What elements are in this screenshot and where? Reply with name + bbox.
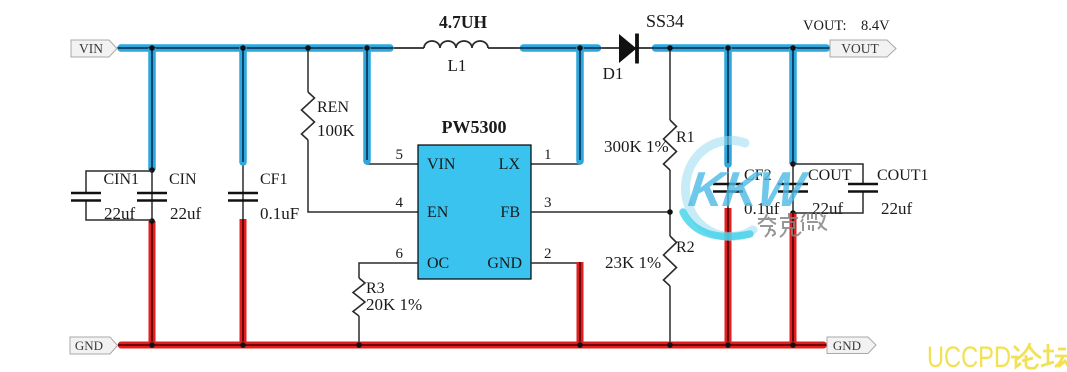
net flag VIN bbox=[71, 40, 117, 57]
resistor REN 100K bbox=[302, 92, 356, 140]
svg-text:FB: FB bbox=[500, 204, 520, 221]
svg-text:CIN1: CIN1 bbox=[104, 171, 140, 188]
pin 4 EN bbox=[396, 195, 449, 221]
wire FB pin to divider node bbox=[531, 211, 670, 213]
watermark KKW text bbox=[685, 162, 810, 217]
wire LX pin branch black core bbox=[531, 48, 580, 164]
svg-text:KKW: KKW bbox=[685, 162, 810, 217]
label VOUT voltage bbox=[803, 18, 890, 34]
svg-text:CF1: CF1 bbox=[260, 171, 288, 188]
wire top rail blue highlight segment inductor to diode bbox=[520, 44, 601, 52]
net flag GND left bbox=[70, 337, 118, 354]
svg-text:D1: D1 bbox=[603, 64, 624, 83]
svg-text:0.1uF: 0.1uF bbox=[260, 204, 299, 223]
svg-text:8.4V: 8.4V bbox=[861, 18, 890, 34]
node VIN rail at REN bbox=[305, 45, 311, 51]
node VIN rail at CIN bbox=[149, 45, 155, 51]
wire top rail blue highlight segment VIN flag to inductor bbox=[118, 44, 393, 52]
svg-text:COUT1: COUT1 bbox=[877, 167, 929, 184]
node VOUT rail at COUT bbox=[790, 45, 796, 51]
svg-text:LX: LX bbox=[499, 156, 521, 173]
wire VIN pin branch black core bbox=[367, 48, 418, 164]
wire CF1 branch blue highlight bbox=[239, 48, 247, 162]
diode D1 SS34 bbox=[603, 11, 684, 83]
pin 1 LX bbox=[499, 147, 552, 173]
node GND rail at COUT bbox=[790, 342, 796, 348]
node GND rail at R3 bbox=[356, 342, 362, 348]
capacitor CF1 bbox=[228, 171, 299, 223]
wire R1 to FB node bbox=[669, 170, 671, 236]
node VOUT rail at R1 bbox=[667, 45, 673, 51]
watermark swoosh bright tail bbox=[683, 212, 750, 236]
net flag GND right bbox=[827, 337, 876, 354]
resistor R3 20K 1% bbox=[353, 278, 422, 316]
svg-text:R1: R1 bbox=[676, 129, 695, 146]
inductor L1 bbox=[424, 12, 488, 75]
capacitor CF2 bbox=[713, 167, 780, 218]
svg-text:COUT: COUT bbox=[808, 167, 852, 184]
node GND rail at CF2 bbox=[725, 342, 731, 348]
wire COUT branch blue highlight bbox=[789, 48, 797, 164]
wire COUT1 parallel bracket bbox=[793, 164, 863, 213]
svg-text:REN: REN bbox=[317, 99, 349, 116]
wire LX pin branch blue highlight bbox=[576, 48, 584, 161]
svg-text:22uf: 22uf bbox=[881, 199, 913, 218]
svg-text:2: 2 bbox=[544, 246, 552, 262]
wire COUT to GND red highlight bbox=[790, 213, 797, 345]
svg-text:SS34: SS34 bbox=[646, 11, 684, 31]
node GND rail at R2 bbox=[667, 342, 673, 348]
svg-text:R2: R2 bbox=[676, 239, 695, 256]
wire GND pin to ground black core bbox=[531, 263, 580, 345]
svg-text:CIN: CIN bbox=[169, 171, 197, 188]
wire R2 to GND rail bbox=[669, 286, 671, 345]
node GND rail at CF1 bbox=[240, 342, 246, 348]
wire REN to EN pin bbox=[308, 140, 418, 212]
wire CIN branch black core bbox=[151, 48, 153, 221]
svg-text:UCCPD: UCCPD bbox=[927, 341, 1011, 372]
svg-text:22uf: 22uf bbox=[104, 204, 136, 223]
wire COUT branch black core bbox=[792, 48, 794, 213]
node COUT bottom junction bbox=[790, 210, 796, 216]
node CIN top junction bbox=[149, 167, 155, 173]
node CIN bottom junction bbox=[149, 218, 155, 224]
wire VIN pin branch blue highlight bbox=[363, 48, 371, 161]
label forum chinese characters bbox=[1011, 343, 1067, 369]
wire top rail VIN net (thin black core) bbox=[117, 47, 830, 49]
svg-text:PW5300: PW5300 bbox=[442, 117, 507, 137]
node VIN rail at VIN pin bbox=[364, 45, 370, 51]
svg-text:22uf: 22uf bbox=[170, 204, 202, 223]
wire CF1 branch black core bbox=[242, 48, 244, 219]
svg-text:4.7UH: 4.7UH bbox=[439, 12, 488, 32]
wire CF2 branch blue highlight bbox=[724, 48, 732, 164]
svg-text:GND: GND bbox=[487, 255, 522, 272]
svg-text:300K 1%: 300K 1% bbox=[604, 137, 669, 156]
svg-text:GND: GND bbox=[833, 338, 861, 353]
wire GND pin branch red highlight bbox=[577, 262, 584, 345]
wire top rail blue highlight segment diode to VOUT flag bbox=[652, 44, 830, 52]
wire GND bottom rail black core bbox=[118, 344, 827, 346]
wire CIN to GND red highlight bbox=[149, 221, 156, 345]
wire R3 to GND rail bbox=[358, 316, 360, 345]
net flag VOUT bbox=[830, 40, 896, 57]
wire OC pin to R3 bbox=[359, 263, 418, 278]
wire CIN1 parallel bracket bbox=[86, 171, 152, 220]
node LX rail junction bbox=[577, 45, 583, 51]
svg-text:OC: OC bbox=[427, 255, 449, 272]
wire CIN branch blue highlight bbox=[148, 48, 156, 170]
svg-text:GND: GND bbox=[75, 338, 103, 353]
pin 3 FB bbox=[500, 195, 551, 221]
svg-text:4: 4 bbox=[396, 195, 404, 211]
resistor R1 300K 1% bbox=[604, 120, 695, 170]
svg-text:6: 6 bbox=[396, 246, 404, 262]
wire CF2 to GND red highlight bbox=[725, 208, 732, 345]
svg-text:20K 1%: 20K 1% bbox=[366, 295, 422, 314]
svg-text:3: 3 bbox=[544, 195, 552, 211]
wire GND bottom rail red highlight bbox=[118, 342, 827, 349]
svg-text:VIN: VIN bbox=[427, 156, 456, 173]
svg-text:5: 5 bbox=[396, 147, 404, 163]
label UCCPD forum watermark bbox=[927, 341, 1011, 372]
node GND rail at IC GND bbox=[577, 342, 583, 348]
pin 2 GND bbox=[487, 246, 551, 272]
svg-text:VOUT: VOUT bbox=[841, 41, 879, 56]
node GND rail at CIN bbox=[149, 342, 155, 348]
capacitor CIN bbox=[137, 171, 202, 223]
watermark KKW logo swoosh bbox=[685, 140, 753, 236]
op-amp U1 PW5300 IC body bbox=[418, 117, 531, 279]
node VIN rail at CF1 bbox=[240, 45, 246, 51]
svg-text:100K: 100K bbox=[317, 121, 356, 140]
svg-text:1: 1 bbox=[544, 147, 552, 163]
wire CF1 to GND red highlight bbox=[240, 219, 247, 345]
svg-text:EN: EN bbox=[427, 204, 449, 221]
wire CF2 branch black core bbox=[727, 48, 729, 210]
resistor R2 23K 1% bbox=[605, 236, 695, 286]
capacitor COUT1 bbox=[848, 167, 929, 218]
capacitor CIN1 bbox=[71, 171, 139, 223]
node FB divider junction bbox=[667, 209, 673, 215]
pin 5 VIN bbox=[396, 147, 456, 173]
svg-text:L1: L1 bbox=[448, 56, 467, 75]
node VOUT rail at CF2 bbox=[725, 45, 731, 51]
svg-text:VOUT:: VOUT: bbox=[803, 18, 847, 34]
svg-text:23K 1%: 23K 1% bbox=[605, 253, 661, 272]
capacitor COUT bbox=[778, 167, 852, 218]
svg-text:VIN: VIN bbox=[79, 41, 103, 56]
node COUT top junction bbox=[790, 161, 796, 167]
watermark quark-micro characters bbox=[758, 213, 827, 237]
wire R1 branch from diode output bbox=[669, 48, 671, 120]
pin 6 OC bbox=[396, 246, 450, 272]
wire REN branch from VIN rail bbox=[307, 48, 309, 92]
